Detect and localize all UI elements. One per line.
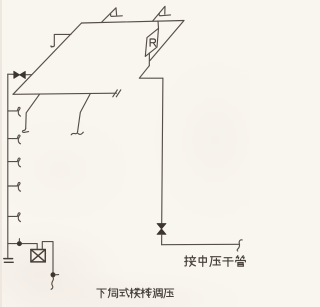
drain / plug symbol at bottom of left riser: [4, 259, 13, 263]
wire: meter outlet up-over-down: [42, 242, 53, 273]
wire: isometric jog below regulator: [139, 66, 163, 79]
riser symbol on top edge (left): [102, 8, 117, 22]
rooftop ring main: bottom edge: [13, 93, 117, 94]
appliance cock (dot with side tick): [51, 273, 55, 277]
break squiggle below appliance cock: [51, 277, 53, 289]
label: 下饲式楼栋调压 (title): [97, 288, 174, 298]
valve V2 (vertical bowtie on feed riser): [157, 224, 166, 235]
riser symbol on top edge (right): [153, 6, 165, 21]
plug cock (dot with stem) on meter inlet: [17, 242, 21, 246]
apartment branch stub 5 on left riser: [8, 213, 21, 222]
rooftop ring main: right slant edge: [150, 21, 184, 61]
break squiggle at medium pressure main connection: [237, 240, 242, 251]
letter R inside regulator: [150, 39, 156, 46]
wire: right feed riser vertical: [162, 78, 163, 223]
valve V1 (gate valve bowtie on left riser inlet): [14, 71, 25, 78]
regulator R (sheared box): [145, 28, 158, 56]
stub from top edge down to regulator: [157, 21, 160, 28]
pipe break symbol // at end of bottom edge: [113, 90, 121, 97]
wire: regulator outlet stub: [148, 53, 150, 66]
apartment branch stub 3 on left riser: [8, 158, 21, 167]
riser drop 2 from bottom edge: [78, 94, 91, 132]
wire: meter inlet horizontal: [8, 244, 37, 250]
apartment branch stub 4 on left riser: [8, 182, 21, 191]
apartment branch stub 2 on left riser: [8, 135, 21, 144]
break squiggle at bottom of drop 2: [71, 132, 83, 135]
rooftop ring main: top edge: [82, 21, 185, 24]
label: 接中压干管 (connect to MP main): [185, 256, 246, 267]
wire: left riser vertical pipe: [7, 74, 9, 258]
wire: horizontal to medium pressure main: [162, 243, 239, 245]
apartment branch stub 1 on left riser: [8, 107, 21, 116]
gas meter (box with X): [31, 250, 45, 262]
wire: inlet horizontal at top of left riser: [8, 73, 32, 76]
riser drop 1 from bottom edge: [26, 94, 40, 128]
riser symbol on left slant edge: [54, 34, 71, 45]
break squiggle at bottom of drop 1: [22, 128, 28, 132]
rooftop ring main: left slant edge: [13, 23, 82, 94]
